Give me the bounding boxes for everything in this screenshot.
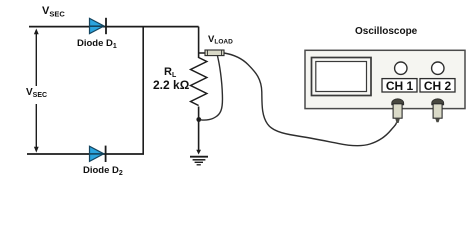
CH 2 input box: [420, 79, 455, 92]
knob 2: [432, 62, 444, 74]
wire: anode lead through diode D1: [90, 25, 104, 27]
label Diode D2: [83, 165, 123, 177]
wire: anode lead through diode D2: [90, 153, 104, 155]
voltage indicator line VSEC (with arrowheads both ends): [35, 31, 37, 86]
label VSEC (top secondary voltage): [42, 5, 65, 19]
node: resistor bottom junction dot: [196, 117, 201, 122]
label CH 2: [420, 79, 455, 93]
label Diode D1: [77, 38, 117, 50]
cable: probe lead from VLOAD connector to CH1 probe: [224, 53, 397, 146]
label CH 1: [382, 79, 417, 93]
wire: load branch vertical (top wire down to resistor): [198, 27, 200, 58]
resistor RL 2.2k zigzag: [191, 58, 207, 106]
wire: stub to VLOAD connector: [199, 52, 206, 54]
ground symbol: [190, 150, 208, 165]
label VSEC (full secondary voltage, mid-left): [25, 87, 48, 99]
wire: resistor bottom to ground: [198, 107, 200, 152]
cable: ground lead from connector to resistor bottom node: [201, 56, 223, 120]
label RL: [164, 66, 176, 79]
knob 1: [395, 62, 407, 74]
arrowhead down (VSEC indicator bottom): [34, 147, 39, 153]
oscilloscope body: [305, 50, 465, 108]
probe: CH2 BNC connector: [432, 99, 444, 123]
wire: top horizontal from secondary to load branch: [29, 26, 199, 28]
label VLOAD: [208, 34, 233, 46]
wire: right side of diode loop (vertical): [142, 27, 144, 154]
wire: bottom horizontal from secondary to loop corner: [27, 153, 144, 155]
connector: VLOAD probe tip barrel: [205, 50, 224, 56]
oscilloscope screen outer bezel: [312, 58, 372, 96]
diode D1: [90, 18, 107, 34]
diode D2: [90, 146, 106, 162]
probe: CH1 BNC connector: [392, 99, 404, 123]
oscilloscope screen inner: [316, 62, 367, 92]
CH 1 input box: [382, 79, 417, 92]
label 2.2 kOhm: [153, 78, 189, 92]
arrowhead up (VSEC indicator top): [34, 29, 39, 35]
label Oscilloscope: [355, 26, 417, 37]
